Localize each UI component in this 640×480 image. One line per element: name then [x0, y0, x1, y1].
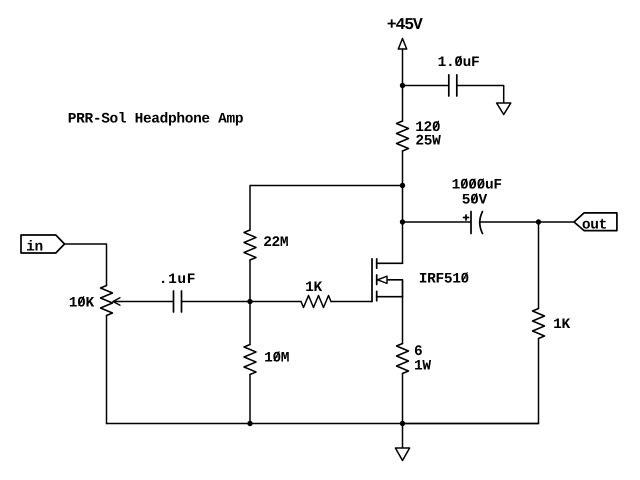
svg-text:1W: 1W [414, 358, 431, 374]
node junction dot bus source [400, 421, 405, 426]
svg-text:6: 6 [414, 344, 422, 360]
wire source to R6 [402, 297, 404, 344]
wire 10M bottom lead [249, 375, 251, 424]
wire wiper to coupling cap [113, 301, 173, 303]
node junction dot bus bias [247, 421, 252, 426]
svg-text:out: out [582, 217, 607, 233]
resistor R 1K gate [301, 296, 331, 308]
resistor R 10M [244, 345, 256, 375]
gate bar [371, 259, 373, 302]
node junction dot at rail/bypass [400, 83, 405, 88]
wire output cap left lead [403, 221, 471, 223]
wire ground stub [402, 424, 404, 449]
slashed zero marks (CAD font style) [79, 56, 484, 360]
wire gate lead [331, 301, 372, 303]
wire bias middle [249, 260, 251, 345]
potentiometer wiper arrow [113, 298, 120, 305]
wire V+ rail top [402, 49, 404, 121]
resistor R 1K load [533, 309, 545, 339]
ground symbol bottom [395, 448, 409, 461]
capacitor C 1.0uF [449, 75, 457, 96]
channel dash middle [376, 275, 378, 285]
wire input [65, 244, 107, 286]
svg-text:1.0uF: 1.0uF [438, 55, 480, 71]
svg-text:IRF510: IRF510 [419, 271, 469, 287]
wire ground bus [107, 423, 539, 425]
svg-text:1K: 1K [305, 280, 322, 296]
source lead [377, 296, 403, 298]
ground symbol top right [497, 103, 511, 115]
resistor R 120 25W [397, 121, 409, 151]
svg-text:in: in [26, 239, 43, 255]
node junction dot bias [247, 299, 252, 304]
svg-text:1K: 1K [553, 317, 570, 333]
channel dash bottom [376, 291, 378, 301]
port tag in [21, 235, 65, 253]
node junction dot gate feedback [400, 183, 405, 188]
drain lead [377, 262, 403, 264]
capacitor C .1uF [174, 291, 182, 312]
wire load resistor bottom lead [403, 339, 539, 424]
wire feedback top [250, 186, 403, 231]
svg-text:+45V: +45V [387, 15, 423, 34]
svg-text:PRR-Sol Headphone Amp: PRR-Sol Headphone Amp [68, 112, 244, 128]
svg-text:10M: 10M [264, 351, 289, 367]
svg-text:22M: 22M [263, 235, 288, 251]
wire drain rail [402, 151, 404, 263]
svg-text:10K: 10K [69, 295, 95, 311]
svg-text:1000uF: 1000uF [452, 178, 502, 194]
svg-text:25W: 25W [415, 134, 441, 150]
port tag out [574, 213, 617, 231]
node junction dot output [400, 219, 405, 224]
wire pot bottom lead [106, 316, 108, 424]
wire R6 bottom lead [402, 374, 404, 424]
resistor R 6 1W [397, 344, 409, 374]
resistor R 22M [244, 230, 256, 260]
wire bypass cap left lead [403, 85, 448, 87]
wire coupling cap to gate node [182, 301, 302, 303]
potentiometer R 10K [101, 286, 113, 316]
body arrow line [387, 280, 403, 297]
body arrow head [378, 276, 388, 283]
capacitor C 1000uF 50V polarized [464, 212, 483, 234]
wire output cap right lead [480, 221, 575, 223]
svg-text:50V: 50V [462, 192, 488, 208]
channel dash top [376, 259, 378, 269]
wire bypass cap right lead [457, 86, 504, 104]
svg-text:.1uF: .1uF [159, 272, 196, 288]
transistor Q IRF510 [372, 259, 403, 302]
wire load resistor top lead [538, 222, 540, 309]
power arrow symbol [398, 39, 406, 50]
node junction dot out load [536, 219, 541, 224]
